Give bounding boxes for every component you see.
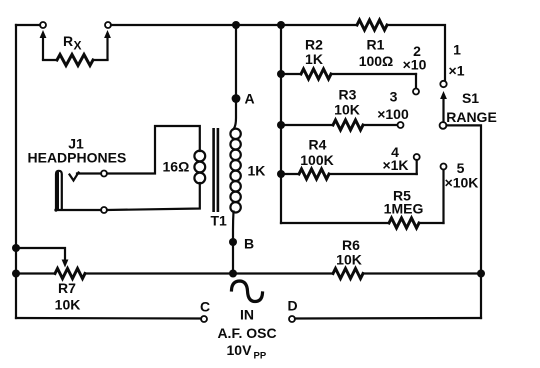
svg-text:R7: R7 <box>58 280 76 296</box>
node R7 wiper junction <box>12 244 20 252</box>
svg-text:B: B <box>244 236 254 252</box>
node R6 right rail junction <box>477 270 485 278</box>
wire bottom to terminal C <box>16 317 201 320</box>
svg-text:R4: R4 <box>309 137 327 153</box>
node B <box>229 238 237 246</box>
svg-text:×10K: ×10K <box>445 175 479 191</box>
terminal C <box>201 316 207 322</box>
node B bus junction <box>229 270 237 278</box>
node A <box>232 94 241 103</box>
svg-text:X: X <box>74 39 82 53</box>
wire secondary bottom to node B <box>232 212 235 274</box>
wire terminal D to right rail <box>295 317 481 320</box>
wire bank vertical <box>280 25 282 223</box>
switch S1 common <box>440 122 447 129</box>
wire A column down <box>234 25 237 129</box>
svg-text:T1: T1 <box>211 213 228 229</box>
svg-text:3: 3 <box>390 89 398 105</box>
svg-text:PP: PP <box>254 351 267 362</box>
wire top rail <box>111 24 357 26</box>
wire J1 tip to primary top <box>107 126 200 174</box>
transformer T1 secondary winding 1K <box>230 129 240 139</box>
svg-text:R: R <box>63 33 73 49</box>
svg-text:R3: R3 <box>339 87 357 103</box>
transformer T1 primary winding 16ohm <box>194 151 205 162</box>
svg-text:D: D <box>287 298 297 314</box>
svg-text:10V: 10V <box>227 342 253 358</box>
switch S1 contact 1 <box>440 81 446 87</box>
svg-text:1K: 1K <box>305 51 323 67</box>
svg-text:1K: 1K <box>248 163 266 179</box>
jack J1 plug <box>56 171 62 211</box>
contact 2 <box>413 89 419 95</box>
svg-text:100K: 100K <box>300 152 333 168</box>
arrow up to left probe <box>40 30 47 38</box>
resistor R7 <box>55 269 85 279</box>
svg-text:S1: S1 <box>462 90 479 106</box>
node bank-R2 <box>277 70 285 78</box>
terminal D <box>289 316 295 322</box>
node top junction at A column <box>232 21 240 29</box>
node bank-R3 <box>277 121 285 129</box>
contact 5 <box>441 164 447 170</box>
svg-text:1MEG: 1MEG <box>384 201 424 217</box>
wire main bottom bus y=273.5 <box>16 272 55 274</box>
svg-text:×100: ×100 <box>377 106 409 122</box>
wire top-left to RX terminal <box>16 24 40 26</box>
svg-text:IN: IN <box>240 307 254 323</box>
resistor RX <box>43 59 57 61</box>
resistor R4 <box>281 173 299 175</box>
svg-text:A: A <box>245 91 255 107</box>
transformer T1 core <box>212 128 215 212</box>
svg-text:A.F. OSC: A.F. OSC <box>217 325 276 341</box>
resistor R6 <box>333 269 363 279</box>
svg-text:10K: 10K <box>334 102 360 118</box>
terminal RX left probe <box>40 22 46 28</box>
wire J1 sleeve bottom <box>56 209 102 211</box>
svg-text:100Ω: 100Ω <box>359 53 394 69</box>
svg-text:×10: ×10 <box>403 57 427 73</box>
resistor R2 <box>281 73 301 75</box>
wire top rail right + drop to contact 1 <box>387 25 445 80</box>
R7 wiper tap <box>16 248 65 260</box>
contact 4 <box>414 154 420 160</box>
wire J1 sleeve to primary bottom <box>107 183 200 210</box>
node R7 left <box>12 270 20 278</box>
contact 3 <box>398 122 404 128</box>
svg-text:×1K: ×1K <box>382 157 408 173</box>
arrow up to right probe <box>104 30 111 38</box>
switch S1 wiper arrow <box>440 91 447 99</box>
terminal J1 tip <box>101 171 107 177</box>
svg-text:16Ω: 16Ω <box>163 159 190 175</box>
jack J1 tip contact <box>70 173 79 181</box>
resistor R3 <box>281 124 333 126</box>
svg-text:10K: 10K <box>336 252 362 268</box>
svg-text:1: 1 <box>453 42 461 58</box>
wire left vertical rail <box>15 25 17 318</box>
svg-text:R1: R1 <box>367 37 385 53</box>
svg-text:×1: ×1 <box>449 63 465 79</box>
node bank-R4 <box>277 170 285 178</box>
resistor R5 <box>281 222 389 224</box>
terminal RX right probe <box>105 22 111 28</box>
svg-text:HEADPHONES: HEADPHONES <box>28 150 127 166</box>
svg-text:C: C <box>200 299 210 315</box>
svg-text:RANGE: RANGE <box>446 109 497 125</box>
sine symbol AF oscillator <box>232 281 263 302</box>
resistor R1 <box>357 20 387 30</box>
wire J1 tip to circle <box>77 172 101 174</box>
wire S1 common to right rail <box>447 125 482 318</box>
svg-text:10K: 10K <box>55 297 81 313</box>
terminal J1 sleeve <box>101 207 107 213</box>
node top junction at bank column <box>277 21 285 29</box>
